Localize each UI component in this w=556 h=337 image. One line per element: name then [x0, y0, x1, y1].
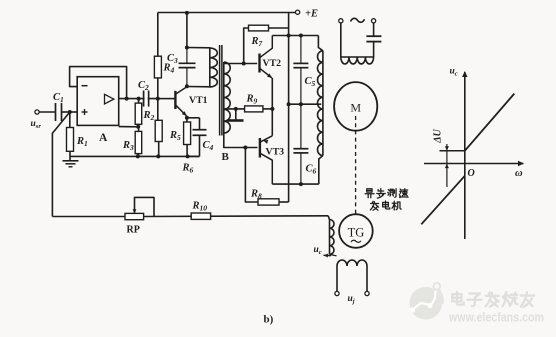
svg-text:C5: C5 [305, 76, 316, 88]
svg-text:C3: C3 [167, 53, 178, 65]
svg-text:A: A [99, 132, 108, 144]
svg-text:ω: ω [515, 168, 523, 179]
svg-text:b): b) [264, 314, 274, 326]
svg-text:VT2: VT2 [263, 58, 282, 69]
svg-text:uc: uc [314, 245, 322, 256]
svg-text:C6: C6 [306, 164, 317, 176]
svg-text:uc: uc [450, 67, 458, 78]
svg-text:TG: TG [348, 226, 365, 240]
svg-text:usr: usr [31, 119, 42, 130]
svg-text:R1: R1 [76, 136, 88, 148]
svg-text:R8: R8 [250, 189, 262, 201]
svg-text:ΔU: ΔU [433, 128, 444, 143]
svg-text:M: M [350, 101, 361, 115]
svg-text:R10: R10 [192, 201, 208, 213]
svg-text:+E: +E [305, 9, 318, 20]
svg-text:R6: R6 [182, 163, 194, 175]
svg-text:R3: R3 [122, 140, 134, 152]
svg-text:R5: R5 [169, 130, 181, 142]
svg-text:uj: uj [348, 294, 355, 305]
svg-text:R7: R7 [251, 36, 263, 48]
svg-text:www.elecfans.com: www.elecfans.com [448, 310, 544, 325]
svg-text:C2: C2 [138, 80, 149, 92]
svg-text:C1: C1 [53, 92, 64, 104]
svg-text:O: O [468, 168, 475, 179]
svg-text:RP: RP [127, 225, 140, 236]
svg-text:R4: R4 [163, 63, 175, 75]
svg-text:VT3: VT3 [266, 146, 285, 157]
svg-text:R2: R2 [143, 110, 155, 122]
svg-text:VT1: VT1 [189, 95, 208, 106]
svg-text:R9: R9 [246, 94, 258, 106]
svg-text:B: B [222, 151, 230, 163]
svg-text:C4: C4 [203, 140, 214, 152]
